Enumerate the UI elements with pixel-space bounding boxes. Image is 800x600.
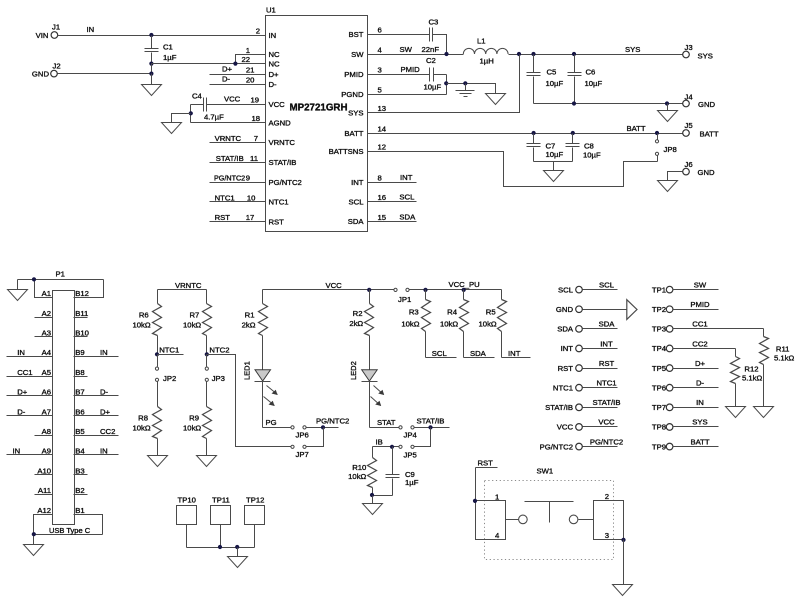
- svg-text:PG/NTC2: PG/NTC2: [316, 416, 349, 425]
- svg-text:VRNTC: VRNTC: [175, 281, 202, 290]
- svg-text:A4: A4: [42, 348, 52, 357]
- svg-text:C3: C3: [429, 18, 439, 27]
- header pin SCL: [558, 280, 617, 294]
- svg-text:SDA: SDA: [470, 349, 487, 358]
- svg-text:D-: D-: [222, 75, 231, 84]
- svg-text:5.1kΩ: 5.1kΩ: [742, 374, 763, 383]
- wire SCL pin 16 net label: [368, 193, 417, 202]
- svg-text:SYS: SYS: [698, 52, 713, 61]
- svg-text:SDA: SDA: [557, 325, 574, 334]
- svg-text:C1: C1: [163, 43, 173, 52]
- connector J6 GND: [683, 160, 715, 177]
- pin A9 of P1: [7, 447, 53, 456]
- ground symbol under R12: [726, 407, 746, 418]
- capacitor C2 10uF: [424, 56, 447, 92]
- svg-text:10µF: 10µF: [583, 151, 601, 160]
- svg-text:TP8: TP8: [652, 423, 666, 432]
- wire BATTSNS pin 12 to JP8: [368, 152, 658, 187]
- capacitor C1 1uF: [145, 36, 177, 64]
- connector J4 GND: [683, 93, 716, 110]
- jumper JP7: [291, 445, 309, 459]
- svg-text:MP2721GRH: MP2721GRH: [290, 103, 348, 114]
- svg-text:IN: IN: [100, 348, 108, 357]
- pin numbers U1 right side: [378, 26, 387, 222]
- header pin RST: [558, 359, 618, 373]
- pin A2 of P1: [35, 309, 53, 318]
- switch SW1 pin block right: [594, 492, 626, 542]
- capacitor C5 10uF: [527, 55, 564, 104]
- ground symbol at TP bus: [228, 548, 248, 568]
- svg-text:STAT/IB: STAT/IB: [216, 154, 244, 163]
- svg-text:LED1: LED1: [243, 361, 252, 380]
- svg-text:NTC1: NTC1: [553, 383, 573, 392]
- resistor R2 2k: [349, 290, 373, 370]
- svg-text:TP2: TP2: [652, 305, 666, 314]
- wire VCC net label on pin 19: [224, 95, 241, 104]
- test point TP2: [652, 300, 719, 314]
- connector J2 GND: [32, 62, 61, 79]
- svg-text:SDA: SDA: [399, 212, 416, 221]
- node NTC2: [205, 346, 230, 357]
- wire VRNTC rail: [158, 281, 207, 290]
- wire SYS ground rail to J4: [534, 101, 683, 105]
- switch SW1 dotted outline: [485, 467, 614, 560]
- svg-text:B12: B12: [75, 289, 89, 298]
- svg-text:VCC: VCC: [557, 423, 574, 432]
- wire NTC2 to JP7: [207, 355, 291, 447]
- pin A11 of P1: [35, 486, 53, 495]
- svg-text:NTC2: NTC2: [209, 346, 229, 355]
- svg-text:D+: D+: [695, 359, 706, 368]
- svg-text:10kΩ: 10kΩ: [401, 320, 419, 329]
- svg-text:2kΩ: 2kΩ: [242, 321, 256, 330]
- capacitor C3 22nF: [422, 18, 447, 55]
- svg-text:A8: A8: [42, 427, 51, 436]
- svg-text:SCL: SCL: [432, 349, 448, 358]
- pin B9 of P1: [74, 348, 119, 357]
- ground symbol at P1 top: [8, 280, 28, 301]
- svg-text:B11: B11: [75, 309, 88, 318]
- svg-text:1: 1: [246, 46, 250, 55]
- svg-text:J3: J3: [685, 43, 693, 52]
- svg-text:AGND: AGND: [269, 118, 292, 127]
- resistor R12 5.1k: [731, 349, 763, 407]
- svg-text:RST: RST: [269, 218, 285, 227]
- wire SCL net at R3: [426, 349, 457, 358]
- wire TP ground bus: [187, 525, 255, 550]
- svg-text:R8: R8: [138, 414, 148, 423]
- wire C4 to AGND pin 18: [189, 105, 266, 123]
- svg-text:U1: U1: [266, 6, 276, 15]
- pin names U1 left inside: [269, 31, 302, 227]
- pin B5 of P1: [74, 427, 119, 436]
- svg-text:11: 11: [250, 154, 258, 163]
- LED2: [349, 361, 384, 427]
- svg-text:10µF: 10µF: [546, 79, 564, 88]
- svg-text:C6: C6: [586, 68, 596, 77]
- svg-text:D-: D-: [269, 80, 278, 89]
- test point TP7: [652, 398, 719, 412]
- svg-text:JP7: JP7: [296, 450, 309, 459]
- svg-text:SW: SW: [351, 50, 364, 59]
- wire C1 bottom to NC pins 1/22: [149, 55, 265, 66]
- svg-text:BATT: BATT: [690, 437, 709, 446]
- svg-text:PGND: PGND: [341, 90, 364, 99]
- svg-text:R2: R2: [353, 309, 363, 318]
- svg-text:IB: IB: [376, 438, 383, 447]
- node IN junction at C1: [149, 33, 153, 37]
- connector J5 BATT: [683, 121, 719, 139]
- svg-text:SDA: SDA: [599, 320, 616, 329]
- svg-text:VIN: VIN: [36, 31, 49, 40]
- svg-text:R9: R9: [189, 414, 199, 423]
- svg-text:JP5: JP5: [404, 451, 417, 460]
- svg-text:PG/NTC2: PG/NTC2: [540, 442, 573, 451]
- test point TP10: [177, 495, 197, 524]
- wire INT net at R5: [502, 349, 531, 358]
- svg-text:RST: RST: [599, 359, 615, 368]
- resistor R6 10k: [132, 290, 161, 355]
- svg-text:R11: R11: [776, 345, 790, 354]
- test point TP1: [652, 280, 719, 294]
- svg-text:SDA: SDA: [348, 217, 365, 226]
- svg-text:2kΩ: 2kΩ: [349, 319, 363, 328]
- svg-text:IN: IN: [13, 447, 21, 456]
- svg-text:NTC1: NTC1: [159, 346, 179, 355]
- svg-text:CC1: CC1: [17, 368, 32, 377]
- svg-text:22nF: 22nF: [422, 45, 440, 54]
- wire INT pin 8 net label: [368, 173, 417, 183]
- resistor R3 10k: [401, 290, 430, 358]
- svg-text:IN: IN: [87, 25, 95, 34]
- wire SYS pin 13 sense tap: [368, 55, 520, 113]
- svg-text:15: 15: [378, 213, 387, 222]
- svg-text:PG: PG: [266, 418, 277, 427]
- svg-text:CC2: CC2: [692, 339, 707, 348]
- svg-text:STAT/IB: STAT/IB: [545, 403, 573, 412]
- svg-text:JP2: JP2: [163, 374, 176, 383]
- svg-text:NC: NC: [269, 59, 281, 68]
- svg-text:TP1: TP1: [652, 285, 666, 294]
- svg-text:JP8: JP8: [664, 145, 677, 154]
- ground symbol under R9: [197, 456, 217, 467]
- pin B6 of P1: [74, 407, 119, 416]
- pin B7 of P1: [74, 388, 119, 397]
- svg-text:B2: B2: [75, 486, 84, 495]
- wire STAT/IB to U1 pin 11: [210, 154, 266, 163]
- svg-text:VRNTC: VRNTC: [215, 134, 242, 143]
- svg-text:INT: INT: [600, 339, 613, 348]
- wire IB net: [373, 438, 399, 449]
- svg-text:CC1: CC1: [692, 320, 707, 329]
- svg-text:C5: C5: [547, 68, 557, 77]
- node NTC1: [155, 346, 184, 357]
- svg-text:SW1: SW1: [537, 467, 554, 476]
- svg-text:RST: RST: [558, 364, 574, 373]
- svg-text:4.7µF: 4.7µF: [204, 113, 224, 122]
- svg-text:PG/NTC2: PG/NTC2: [590, 437, 623, 446]
- connector P1 USB Type C body: [53, 270, 75, 525]
- ground power arrow: [627, 300, 637, 320]
- jumper JP5: [399, 445, 417, 459]
- svg-text:R6: R6: [139, 311, 149, 320]
- resistor R10 10k: [348, 447, 376, 496]
- svg-text:IN: IN: [100, 447, 108, 456]
- pin B11 of P1: [74, 309, 89, 318]
- wire SDA pin 15 net label: [368, 212, 417, 221]
- ground symbol at J4: [658, 104, 678, 122]
- capacitor C7 10uF: [527, 134, 564, 162]
- svg-text:D+: D+: [100, 407, 111, 416]
- pin A8 of P1: [35, 427, 53, 436]
- svg-text:VCC: VCC: [269, 100, 286, 109]
- svg-text:13: 13: [378, 104, 387, 113]
- svg-text:IN: IN: [17, 348, 25, 357]
- svg-text:SYS: SYS: [625, 45, 640, 54]
- svg-text:10µF: 10µF: [424, 83, 442, 92]
- resistor R11 5.1k: [760, 329, 795, 407]
- svg-text:1µF: 1µF: [405, 478, 419, 487]
- header pin PG/NTC2: [540, 437, 623, 451]
- svg-text:R5: R5: [486, 308, 496, 317]
- capacitor C8 10uF: [566, 134, 601, 162]
- ground symbol at C4: [162, 114, 191, 134]
- svg-text:J6: J6: [685, 160, 693, 169]
- ground symbol under SW1: [613, 585, 633, 596]
- op-amp U1 MP2721GRH body: [266, 6, 368, 232]
- pin B2 of P1: [74, 486, 88, 495]
- resistor R9 10k: [183, 382, 211, 456]
- svg-text:R12: R12: [744, 365, 758, 374]
- svg-text:D-: D-: [100, 388, 109, 397]
- svg-text:NC: NC: [269, 50, 281, 59]
- pin B8 of P1: [74, 368, 88, 377]
- wire PG/NTC2 to U1 pin 9: [210, 174, 266, 183]
- wire PG/NTC2 net: [307, 416, 350, 446]
- svg-text:SCL: SCL: [558, 285, 574, 294]
- pin B1 of P1: [75, 506, 84, 515]
- header pin NTC1: [553, 379, 618, 393]
- svg-text:1: 1: [495, 493, 499, 502]
- ground symbol under R11: [754, 407, 774, 418]
- wire SW pin 4 to L1: [368, 45, 464, 56]
- svg-text:2: 2: [256, 27, 260, 36]
- jumper JP4: [399, 426, 418, 440]
- svg-text:BATT: BATT: [344, 129, 363, 138]
- svg-text:TP6: TP6: [652, 383, 666, 392]
- svg-text:4: 4: [495, 531, 500, 540]
- svg-text:INT: INT: [561, 344, 574, 353]
- svg-text:TP3: TP3: [652, 325, 666, 334]
- svg-text:8: 8: [378, 174, 382, 183]
- svg-text:PMID: PMID: [344, 70, 364, 79]
- resistor R8 10k: [132, 382, 161, 456]
- svg-text:INT: INT: [508, 349, 521, 358]
- wire PG net: [263, 418, 291, 428]
- wire D- to U1 pin 20: [210, 75, 266, 85]
- LED1: [243, 361, 278, 427]
- ground symbol at P1 bottom: [24, 535, 44, 556]
- svg-text:SYS: SYS: [348, 108, 363, 117]
- svg-text:3: 3: [378, 66, 382, 75]
- svg-text:P1: P1: [56, 270, 65, 279]
- svg-text:VCC: VCC: [598, 418, 615, 427]
- svg-text:12: 12: [378, 143, 387, 152]
- svg-text:3: 3: [605, 531, 609, 540]
- ground symbol below C1: [142, 74, 162, 96]
- svg-text:R4: R4: [447, 308, 458, 317]
- svg-text:7: 7: [254, 134, 258, 143]
- svg-text:20: 20: [246, 76, 255, 85]
- svg-text:VCC_PU: VCC_PU: [449, 280, 480, 289]
- svg-text:SCL: SCL: [599, 280, 615, 289]
- switch SW1 pin block left: [473, 493, 506, 540]
- svg-text:TP10: TP10: [178, 495, 196, 504]
- jumper JP3: [205, 355, 225, 384]
- svg-text:10kΩ: 10kΩ: [132, 321, 150, 330]
- svg-text:R10: R10: [352, 463, 366, 472]
- svg-text:JP4: JP4: [404, 431, 418, 440]
- svg-text:J1: J1: [52, 23, 60, 32]
- wire J2 to ground node: [58, 64, 154, 76]
- svg-text:B1: B1: [75, 506, 84, 515]
- switch SW1 actuator: [506, 502, 594, 524]
- svg-text:10: 10: [247, 193, 256, 202]
- svg-text:18: 18: [251, 114, 260, 123]
- svg-text:SYS: SYS: [692, 418, 707, 427]
- connector J1 VIN: [36, 23, 60, 41]
- svg-text:A2: A2: [42, 309, 51, 318]
- svg-text:SW: SW: [694, 280, 707, 289]
- svg-text:B9: B9: [75, 348, 84, 357]
- pin B3 of P1: [74, 466, 88, 475]
- svg-text:16: 16: [378, 193, 387, 202]
- svg-text:10kΩ: 10kΩ: [183, 424, 201, 433]
- svg-text:5: 5: [378, 86, 382, 95]
- resistor R7 10k: [183, 290, 211, 355]
- wire BATT pin 14 rail to J5: [368, 124, 683, 135]
- svg-text:22: 22: [241, 55, 250, 64]
- jumper JP6: [291, 426, 309, 440]
- svg-text:D+: D+: [17, 388, 28, 397]
- ground symbol under R10 C9: [363, 493, 393, 515]
- test point TP11: [211, 495, 231, 524]
- wire STAT net: [370, 418, 399, 428]
- svg-text:BATT: BATT: [700, 130, 719, 139]
- svg-text:9: 9: [246, 174, 250, 183]
- pin B10 of P1: [74, 329, 89, 338]
- svg-text:PG/NTC2: PG/NTC2: [269, 178, 302, 187]
- svg-text:JP1: JP1: [398, 295, 411, 304]
- svg-text:RST: RST: [215, 213, 231, 222]
- earth ground at C2: [456, 84, 475, 97]
- jumper JP8: [655, 134, 676, 162]
- svg-text:J4: J4: [685, 93, 694, 102]
- svg-text:JP6: JP6: [296, 431, 309, 440]
- svg-text:C2: C2: [426, 56, 436, 65]
- svg-text:BATTSNS: BATTSNS: [329, 147, 364, 156]
- svg-text:21: 21: [246, 66, 255, 75]
- pin B4 of P1: [74, 447, 119, 456]
- svg-text:TP11: TP11: [212, 495, 230, 504]
- svg-text:JP3: JP3: [212, 374, 225, 383]
- header pin INT: [561, 339, 618, 353]
- svg-text:10kΩ: 10kΩ: [440, 320, 458, 329]
- pin B12 of P1: [75, 289, 89, 298]
- svg-text:D-: D-: [696, 379, 705, 388]
- svg-text:GND: GND: [556, 305, 574, 314]
- ground symbol at J6: [658, 172, 683, 192]
- svg-text:1µH: 1µH: [480, 57, 494, 66]
- svg-text:IN: IN: [269, 31, 277, 40]
- svg-text:R1: R1: [245, 311, 255, 320]
- svg-text:R7: R7: [189, 311, 199, 320]
- wire P1 top bracket A1-B12 shield: [18, 277, 104, 297]
- svg-text:INT: INT: [400, 173, 413, 182]
- wire PGND pin 5: [368, 75, 449, 95]
- wire PGND to grounds: [447, 81, 496, 93]
- wire VCC_PU rail: [410, 280, 502, 292]
- jumper JP2: [155, 355, 176, 384]
- test point TP12: [245, 495, 265, 524]
- test point TP5: [652, 359, 719, 373]
- wire SDA net at R4: [464, 349, 495, 358]
- svg-text:A12: A12: [37, 506, 51, 515]
- pin A10 of P1: [35, 466, 53, 475]
- svg-text:5.1kΩ: 5.1kΩ: [774, 354, 795, 363]
- test point TP8: [652, 418, 719, 432]
- wire VRNTC to U1 pin 7: [210, 134, 266, 143]
- svg-text:USB Type C: USB Type C: [49, 526, 91, 535]
- wire VCC rail: [263, 281, 394, 292]
- svg-text:SW: SW: [400, 45, 413, 54]
- ground symbol under R8: [148, 456, 168, 467]
- inductor L1 1uH: [463, 37, 508, 66]
- svg-text:R3: R3: [409, 308, 419, 317]
- svg-text:L1: L1: [477, 37, 486, 46]
- svg-text:VCC: VCC: [224, 95, 241, 104]
- svg-text:A1: A1: [42, 289, 51, 298]
- svg-text:10kΩ: 10kΩ: [132, 424, 150, 433]
- svg-text:J5: J5: [685, 121, 693, 130]
- svg-text:4: 4: [378, 46, 383, 55]
- pin A7 of P1: [7, 407, 53, 416]
- svg-text:10kΩ: 10kΩ: [183, 321, 201, 330]
- svg-text:A11: A11: [38, 486, 51, 495]
- svg-text:TP12: TP12: [246, 495, 264, 504]
- wire SW1 pin 3 to ground: [623, 540, 625, 585]
- svg-text:10µF: 10µF: [585, 79, 603, 88]
- ground symbol under C7 C8: [534, 162, 573, 182]
- svg-text:TP5: TP5: [652, 364, 666, 373]
- svg-text:J2: J2: [53, 62, 61, 71]
- svg-text:BST: BST: [349, 30, 364, 39]
- svg-text:B8: B8: [75, 368, 84, 377]
- svg-text:STAT/IB: STAT/IB: [417, 416, 445, 425]
- wire RST net to SW1: [476, 459, 498, 501]
- test point TP3: [652, 320, 764, 334]
- wire P1 bottom bracket A12-B1: [32, 515, 103, 537]
- svg-text:14: 14: [378, 125, 387, 134]
- svg-text:B5: B5: [75, 427, 84, 436]
- jumper JP1: [394, 288, 411, 304]
- ground symbol at PGND: [486, 94, 506, 105]
- svg-text:A7: A7: [42, 407, 51, 416]
- svg-text:10kΩ: 10kΩ: [348, 472, 366, 481]
- svg-text:STAT: STAT: [377, 418, 396, 427]
- wire STAT/IB net: [415, 416, 450, 446]
- header pin VCC: [557, 418, 618, 432]
